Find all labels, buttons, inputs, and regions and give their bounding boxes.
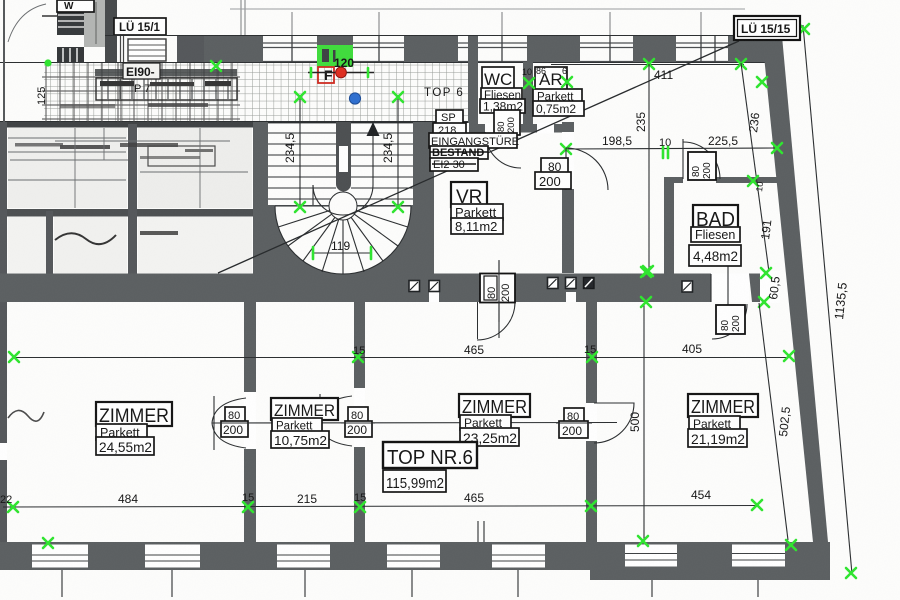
vent square b xyxy=(429,281,440,292)
left boundary lines old building xyxy=(3,0,5,122)
stair left wall xyxy=(253,122,268,274)
corridor band door arc xyxy=(477,302,515,340)
stair right wall with VR left wall xyxy=(413,122,434,274)
bottom windows left xyxy=(32,545,545,568)
stair radial treads xyxy=(275,206,411,274)
zimmer1 door double arc xyxy=(212,396,246,450)
door tag BAD rotated xyxy=(688,152,716,180)
dim line 236-191 along slant xyxy=(741,63,769,272)
green X bottom wall mid xyxy=(638,536,648,546)
bottom outer wall right part with corner xyxy=(590,542,830,580)
dim line 235 vertical xyxy=(648,64,650,272)
top outer wall: continuous top line xyxy=(105,35,770,37)
green dot corridor left xyxy=(44,59,51,66)
stair lower dark block xyxy=(253,205,434,274)
stair spine wall xyxy=(336,122,351,184)
zimmer2 door double arc xyxy=(318,394,352,448)
bottom outer wall left part xyxy=(0,542,590,570)
upper-left rooms: left wall xyxy=(0,122,7,570)
radiator tick above bottom wall xyxy=(478,521,484,542)
corridor bottom edge line xyxy=(0,121,470,123)
stair flight treads right xyxy=(351,133,413,199)
dim line 198,5 10 225,5 xyxy=(566,148,777,149)
old plan overlay: dash marks xyxy=(100,81,134,86)
old building wall band xyxy=(105,0,117,62)
upper-left noise strokes xyxy=(55,140,230,142)
door tag zimmer2 xyxy=(341,407,375,437)
interior wall zimmer3-zimmer4 xyxy=(586,300,597,542)
marker blue dot xyxy=(349,93,360,104)
room label ZIMMER 21,19 xyxy=(688,394,758,447)
wall WC left vertical xyxy=(468,36,478,124)
room label WC xyxy=(480,67,525,114)
room label ZIMMER 23,25 xyxy=(459,394,530,446)
old building block 2 xyxy=(84,0,105,47)
old plan overlay: inner ticks xyxy=(108,79,228,99)
top wall corner piece xyxy=(728,36,784,62)
corridor floor tile hatch xyxy=(44,63,468,122)
top wall pier 5 xyxy=(633,36,676,62)
tag guide line through door tags xyxy=(212,422,617,425)
vent square a xyxy=(409,281,420,292)
vent square f xyxy=(682,281,693,292)
green X bottom wall left xyxy=(43,538,53,548)
door tag zimmer1 xyxy=(214,407,251,437)
top wall pier 4 xyxy=(527,36,580,62)
dim line 502,5 along slant xyxy=(759,303,788,540)
middle band door arc right xyxy=(712,304,747,339)
dim row 484 215 465 454 xyxy=(3,506,758,508)
marker line at F xyxy=(308,72,374,74)
long diagonal reference line xyxy=(218,41,739,273)
BAD leader line xyxy=(727,266,729,308)
room label ZIMMER 10,75 xyxy=(271,398,338,448)
W label box xyxy=(57,0,94,12)
upper-left rooms: horizontal mid wall xyxy=(0,209,266,217)
faint top guide line xyxy=(230,8,745,10)
wall below WC-AR horizontal xyxy=(420,124,562,133)
stair flight treads left xyxy=(268,133,336,199)
green arrow bottom right corner xyxy=(786,540,796,550)
dim line 234,5 right xyxy=(397,95,399,209)
door tag corridor band rotated xyxy=(478,261,516,339)
upper-left rooms: vertical wall B xyxy=(46,211,53,274)
entrance door gap xyxy=(437,123,469,134)
top wall window sill lines xyxy=(204,43,770,62)
old plan overlay: box outline xyxy=(96,78,237,100)
vent square c xyxy=(548,278,559,289)
label TOP NR.6 xyxy=(383,442,477,492)
mullion stubs above wall xyxy=(292,12,701,35)
WC door gap xyxy=(485,123,521,134)
upper-left rooms: vertical wall A xyxy=(128,124,137,274)
middle wall white slot a xyxy=(429,292,439,302)
room label BAD xyxy=(689,205,741,266)
upper-left rooms: top band wall xyxy=(0,122,256,128)
zimmer4 door arc xyxy=(594,403,634,443)
green tick corridor 212 xyxy=(211,61,221,71)
outer boundary line 1135,5 xyxy=(803,25,852,574)
middle horizontal main wall xyxy=(0,274,711,303)
stair inner circle xyxy=(329,192,357,220)
vertical reference lines right of LU box xyxy=(240,0,242,62)
door tag WC rotated xyxy=(494,110,520,135)
VR right door arc xyxy=(566,148,608,190)
door tag middle band right rotated xyxy=(716,305,745,334)
right wall wedge at 60-5 xyxy=(749,274,766,303)
dim 119 xyxy=(313,252,371,254)
VR right door gap xyxy=(562,132,574,189)
bottom windows right xyxy=(625,545,785,567)
interior wall zimmer2-top6 xyxy=(354,300,365,542)
LU 15/15 label box xyxy=(734,16,800,40)
door gap zimmer3 wall xyxy=(586,403,597,441)
wall BAD top segment b xyxy=(716,177,780,183)
LU 15/1 label box xyxy=(114,18,166,35)
wall BAD left vertical xyxy=(664,177,674,302)
WC door arc xyxy=(485,132,521,168)
entrance door arc xyxy=(436,132,469,165)
marker red dot xyxy=(336,67,347,78)
dim row 465 405 xyxy=(14,357,789,359)
old building pier extension left xyxy=(177,36,204,62)
dim line 411 xyxy=(551,64,744,66)
old plan overlay: dark bar EI90 zone xyxy=(95,69,237,76)
door arc room 225,5 xyxy=(683,142,720,179)
interior wall zimmer1-zimmer2 xyxy=(244,300,256,542)
room label ZIMMER 24,55 xyxy=(96,402,172,455)
vent square e dark xyxy=(584,278,595,289)
marker F red box xyxy=(318,67,334,83)
AR door gap xyxy=(537,123,554,134)
slanted right outer wall xyxy=(762,36,828,542)
room label AR xyxy=(533,67,584,116)
door gap zimmer2 wall xyxy=(354,388,365,447)
stair white semicircle xyxy=(275,206,411,274)
green window marker rect xyxy=(317,45,353,67)
label SP 218 xyxy=(433,110,466,137)
window symbol box below LU xyxy=(128,39,166,61)
middle wall white slot b xyxy=(566,292,576,302)
corridor top edge line xyxy=(0,62,770,64)
door tag zimmer3-4 xyxy=(556,408,592,438)
dim line 234,5 left xyxy=(299,95,301,209)
stair walking line with arrow xyxy=(367,122,380,136)
dim line 500 vertical xyxy=(643,303,645,540)
top wall pier 1 xyxy=(204,36,263,62)
window axis ticks bottom xyxy=(62,570,758,597)
upper-left gray wash xyxy=(8,128,127,208)
top wall pier 2 xyxy=(317,36,353,62)
wall BAD top segment a xyxy=(664,177,683,183)
old plan coarse grid overlay left corridor xyxy=(42,63,240,122)
window mullions xyxy=(292,36,715,62)
top wall pier 3 xyxy=(404,36,458,62)
vent square d xyxy=(566,278,577,289)
door gap zimmer1 wall xyxy=(244,392,256,449)
text EI90 xyxy=(123,63,160,79)
wall right of VR vertical xyxy=(562,122,574,273)
label EINGANGSTUERE BESTAND xyxy=(429,133,519,171)
middle wall door gap right xyxy=(711,274,749,303)
dim 60,5 xyxy=(760,271,780,303)
door tag VR right xyxy=(535,158,571,189)
old building slit block xyxy=(57,47,84,63)
green X band right a xyxy=(641,267,651,277)
wall WC/AR divider xyxy=(523,62,533,124)
left wall window gap xyxy=(0,443,7,460)
stair outer arc line xyxy=(275,206,411,274)
room label VR xyxy=(451,182,503,234)
old building block upper-left chimney xyxy=(57,8,85,35)
